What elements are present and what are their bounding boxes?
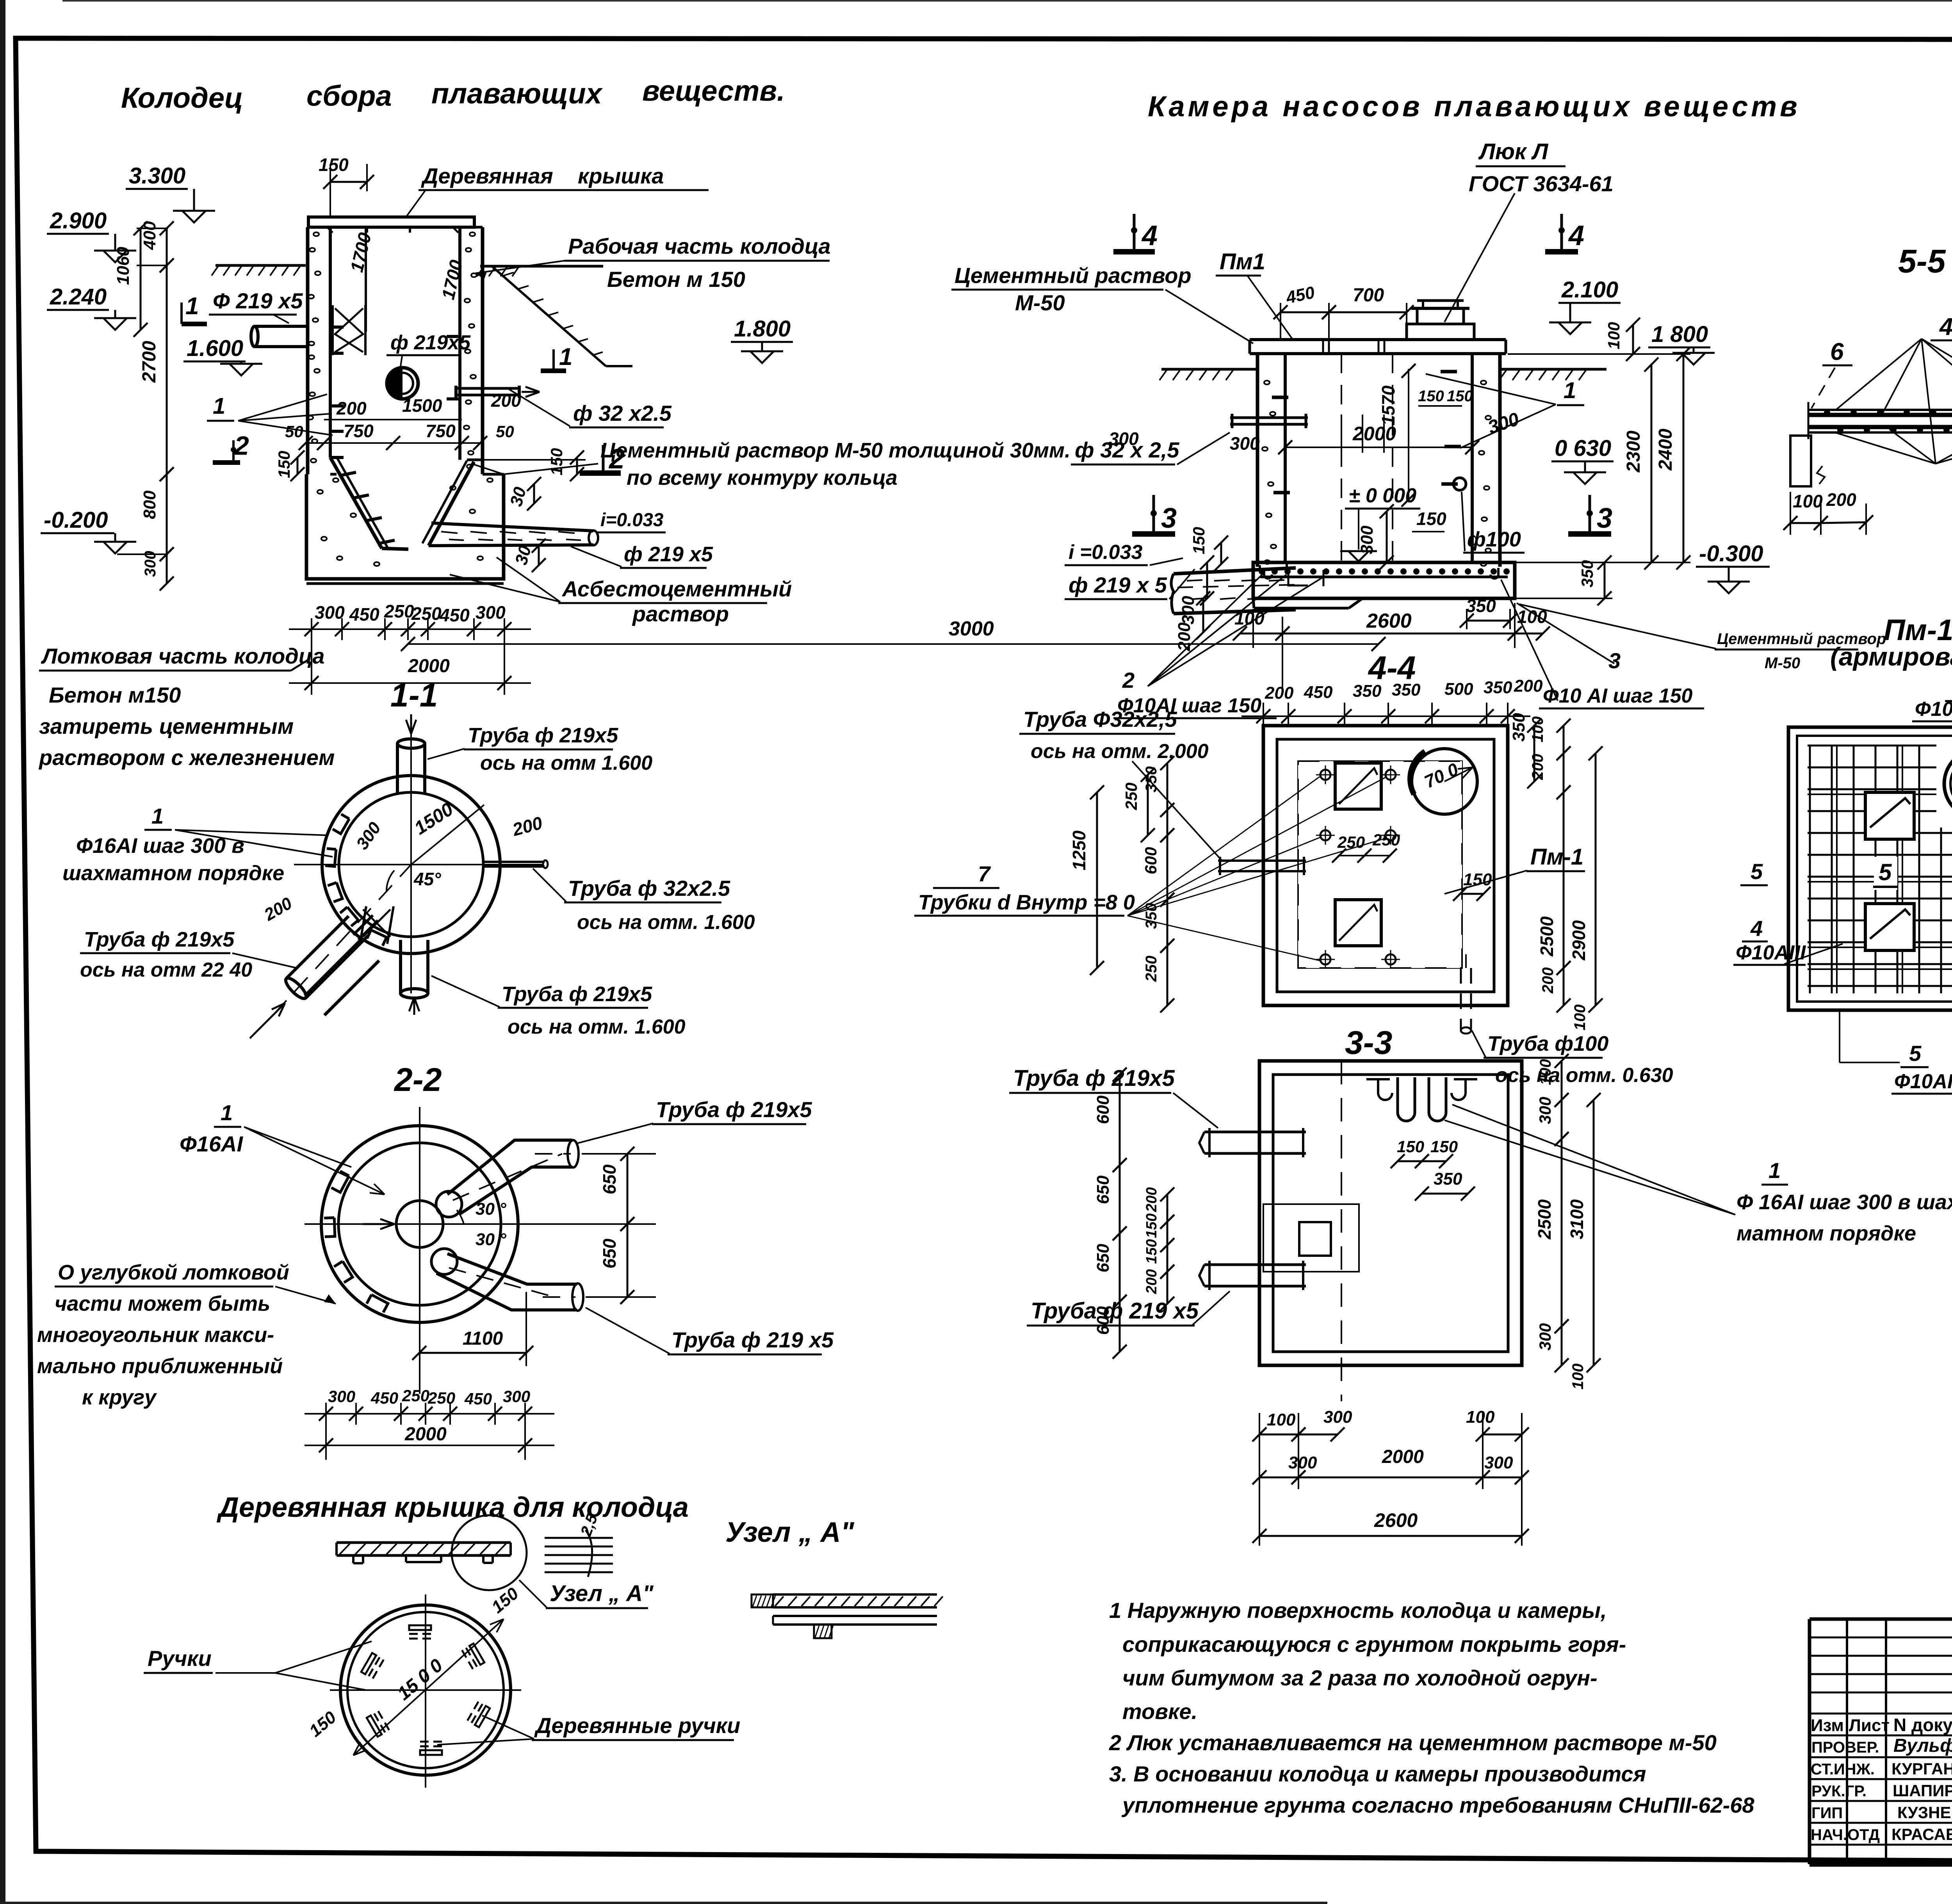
svg-text:Колодец: Колодец: [121, 82, 243, 114]
svg-text:Труба ф 219х5: Труба ф 219х5: [502, 982, 652, 1006]
svg-text:1: 1: [1564, 378, 1576, 403]
svg-text:2000: 2000: [404, 1424, 447, 1445]
svg-text:затиреть цементным: затиреть цементным: [39, 714, 294, 738]
svg-text:5-5: 5-5: [1898, 243, 1946, 279]
svg-text:200: 200: [1143, 1187, 1160, 1212]
svg-text:2.900: 2.900: [50, 208, 107, 233]
svg-text:150: 150: [319, 155, 349, 175]
svg-text:350: 350: [1392, 680, 1421, 699]
svg-text:5: 5: [1879, 859, 1892, 885]
svg-text:НАЧ.ОТД: НАЧ.ОТД: [1811, 1826, 1880, 1843]
svg-text:200: 200: [336, 398, 367, 418]
svg-text:М-50: М-50: [1015, 290, 1065, 315]
svg-text:Деревянная: Деревянная: [421, 164, 553, 188]
svg-text:уплотнение грунта согласно: уплотнение грунта согласно требованиям С…: [1121, 1793, 1754, 1817]
svg-text:Пм1: Пм1: [1220, 249, 1265, 274]
svg-text:300: 300: [1536, 1323, 1554, 1351]
svg-text:2300: 2300: [1623, 431, 1644, 473]
svg-text:ШАПИРО: ШАПИРО: [1893, 1781, 1952, 1800]
svg-text:Рабочая часть колодца: Рабочая часть колодца: [568, 234, 831, 258]
svg-text:150: 150: [1430, 1137, 1458, 1156]
svg-text:750: 750: [344, 421, 374, 441]
svg-text:О углубкой лотковой: О углубкой лотковой: [58, 1261, 289, 1284]
svg-text:7: 7: [978, 861, 991, 886]
svg-text:350: 350: [1509, 713, 1528, 742]
svg-text:450: 450: [370, 1389, 398, 1407]
svg-text:450: 450: [349, 604, 379, 625]
svg-text:3: 3: [1161, 503, 1177, 534]
svg-text:100: 100: [1571, 1004, 1589, 1030]
svg-text:Трубки d Внутр =8 0: Трубки d Внутр =8 0: [918, 891, 1135, 914]
svg-text:150: 150: [1397, 1137, 1424, 1156]
svg-text:Деревянная крышка для коло: Деревянная крышка для колодца: [216, 1492, 689, 1523]
svg-text:2600: 2600: [1366, 610, 1412, 632]
svg-text:750: 750: [426, 421, 456, 441]
svg-text:2000: 2000: [1352, 423, 1396, 445]
svg-text:1: 1: [213, 393, 225, 419]
svg-text:3-3: 3-3: [1345, 1024, 1392, 1061]
svg-text:600: 600: [1094, 1095, 1113, 1124]
svg-text:150: 150: [1416, 509, 1446, 529]
svg-text:300: 300: [315, 602, 345, 623]
svg-text:350: 350: [1143, 766, 1160, 792]
svg-text:Ручки: Ручки: [148, 1646, 212, 1671]
svg-text:1: 1: [1769, 1158, 1781, 1183]
svg-text:0 630: 0 630: [1555, 436, 1611, 461]
svg-text:Труба ф 219х5: Труба ф 219х5: [656, 1097, 812, 1122]
svg-text:200: 200: [1265, 683, 1294, 703]
svg-text:2900: 2900: [1569, 920, 1589, 961]
svg-text:ось на отм. 1.600: ось на отм. 1.600: [577, 911, 755, 934]
svg-text:150: 150: [1190, 527, 1208, 554]
svg-text:300: 300: [1484, 1453, 1513, 1472]
svg-text:ГОСТ 3634-61: ГОСТ 3634-61: [1469, 171, 1614, 196]
svg-text:1.600: 1.600: [187, 336, 243, 361]
svg-text:150: 150: [1143, 1239, 1160, 1264]
svg-text:350: 350: [1434, 1169, 1462, 1189]
svg-text:300: 300: [1323, 1408, 1352, 1427]
svg-text:раствором с железнением: раствором с железнением: [38, 745, 335, 770]
svg-text:250: 250: [411, 603, 442, 624]
svg-text:М-50: М-50: [1765, 655, 1800, 672]
svg-text:250: 250: [402, 1386, 429, 1405]
svg-text:150: 150: [1418, 388, 1444, 405]
svg-text:Бетон м150: Бетон м150: [49, 683, 181, 707]
svg-text:300: 300: [476, 602, 506, 623]
svg-text:250: 250: [1143, 956, 1160, 982]
svg-text:200: 200: [1143, 1269, 1160, 1294]
svg-text:Труба Ф32х2,5: Труба Ф32х2,5: [1023, 707, 1177, 731]
svg-text:ф 219 х5: ф 219 х5: [624, 543, 713, 566]
svg-text:веществ.: веществ.: [642, 75, 785, 107]
svg-text:2-2: 2-2: [394, 1061, 442, 1098]
svg-text:1: 1: [151, 804, 164, 828]
svg-text:650: 650: [599, 1164, 620, 1194]
svg-text:по всему контуру кольца: по всему контуру кольца: [627, 466, 898, 489]
svg-text:ф 32 х2.5: ф 32 х2.5: [573, 401, 672, 425]
svg-text:300: 300: [1179, 596, 1198, 625]
svg-text:6: 6: [1830, 338, 1844, 365]
svg-text:Камера насосов плавающих ве: Камера насосов плавающих веществ: [1148, 90, 1801, 123]
svg-text:3.300: 3.300: [129, 163, 185, 189]
svg-text:чим битумом за 2 раза по: чим битумом за 2 раза по холодной огрун-: [1122, 1666, 1598, 1690]
svg-text:ф 219 х 5: ф 219 х 5: [1069, 573, 1167, 597]
svg-text:100: 100: [1537, 1059, 1554, 1085]
svg-text:2.100: 2.100: [1561, 277, 1618, 303]
svg-text:Цементный раствор: Цементный раствор: [1717, 630, 1886, 648]
svg-text:100: 100: [1267, 1410, 1296, 1429]
svg-text:Бетон м 150: Бетон м 150: [607, 267, 745, 292]
svg-text:2700: 2700: [139, 341, 160, 383]
svg-text:50: 50: [285, 422, 303, 441]
svg-text:50: 50: [496, 422, 514, 441]
svg-text:100: 100: [1605, 322, 1623, 349]
svg-text:3100: 3100: [1567, 1199, 1587, 1239]
svg-text:ось на отм. 1.600: ось на отм. 1.600: [508, 1016, 686, 1038]
svg-text:товке.: товке.: [1122, 1699, 1197, 1724]
svg-text:1.800: 1.800: [734, 316, 791, 342]
svg-text:Труба ф 32х2.5: Труба ф 32х2.5: [568, 876, 730, 900]
svg-text:450: 450: [439, 605, 470, 625]
svg-text:1570: 1570: [1378, 385, 1398, 425]
svg-text:СТ.ИНЖ.: СТ.ИНЖ.: [1811, 1761, 1875, 1778]
svg-text:1: 1: [221, 1100, 233, 1125]
svg-text:1 Наружную поверхность колод: 1 Наружную поверхность колодца и камеры,: [1109, 1598, 1607, 1623]
svg-text:1: 1: [185, 293, 199, 320]
svg-text:300: 300: [1230, 433, 1260, 454]
svg-text:250: 250: [427, 1389, 455, 1407]
svg-text:30 °: 30 °: [476, 1230, 506, 1249]
svg-text:крышка: крышка: [578, 164, 664, 188]
svg-text:100: 100: [1234, 608, 1265, 628]
svg-text:4: 4: [1141, 220, 1158, 251]
svg-text:Ф 219 х5: Ф 219 х5: [213, 288, 303, 313]
svg-text:4: 4: [1568, 220, 1584, 251]
svg-text:2000: 2000: [408, 656, 450, 676]
svg-text:1060: 1060: [114, 247, 133, 285]
svg-text:150: 150: [547, 448, 566, 475]
svg-text:Люк Л: Люк Л: [1478, 139, 1549, 164]
svg-text:ф100: ф100: [1467, 528, 1521, 551]
svg-text:650: 650: [1094, 1244, 1113, 1272]
svg-text:2: 2: [1122, 668, 1135, 692]
svg-text:шахматном порядке: шахматном порядке: [62, 861, 284, 885]
svg-text:450: 450: [1304, 683, 1333, 702]
svg-text:2600: 2600: [1374, 1509, 1418, 1531]
svg-text:250: 250: [1122, 783, 1140, 810]
svg-text:150: 150: [1143, 1214, 1160, 1238]
svg-text:ПРОВЕР.: ПРОВЕР.: [1811, 1739, 1879, 1756]
svg-text:Труба ф 219 х5: Труба ф 219 х5: [1031, 1298, 1199, 1324]
svg-text:4: 4: [1750, 916, 1763, 941]
svg-text:30 °: 30 °: [476, 1199, 506, 1219]
svg-text:i=0.033: i=0.033: [600, 510, 664, 530]
svg-text:2000: 2000: [1382, 1447, 1424, 1467]
svg-text:к кругу: к кругу: [82, 1386, 157, 1409]
svg-text:150: 150: [1463, 870, 1492, 889]
svg-text:многоугольник макси-: многоугольник макси-: [37, 1323, 274, 1347]
svg-text:3. В основании колодца и: 3. В основании колодца и камеры производ…: [1109, 1762, 1646, 1786]
svg-text:КУРГАНОВА: КУРГАНОВА: [1891, 1760, 1952, 1778]
svg-text:200: 200: [1539, 967, 1557, 994]
svg-text:ф 219х5: ф 219х5: [390, 331, 471, 354]
svg-text:3000: 3000: [949, 617, 994, 640]
svg-text:Лист: Лист: [1849, 1716, 1890, 1735]
svg-text:Вульф: Вульф: [1893, 1735, 1952, 1756]
svg-text:части может быть: части может быть: [55, 1292, 270, 1315]
svg-text:350: 350: [1466, 596, 1496, 616]
svg-text:Асбестоцементный: Асбестоцементный: [561, 577, 792, 601]
svg-text:150: 150: [1447, 388, 1473, 405]
svg-text:1: 1: [559, 343, 572, 370]
svg-text:100: 100: [1793, 491, 1823, 511]
svg-text:800: 800: [140, 490, 159, 519]
svg-text:-0.200: -0.200: [44, 507, 108, 533]
svg-text:650: 650: [599, 1238, 620, 1269]
svg-text:Узел „ А": Узел „ А": [550, 1581, 654, 1606]
svg-text:-0.300: -0.300: [1699, 541, 1763, 566]
svg-text:350: 350: [1578, 560, 1596, 587]
svg-text:Труба ф 219х5: Труба ф 219х5: [468, 724, 618, 747]
svg-text:1500: 1500: [402, 395, 442, 416]
svg-text:Ф10 АI шаг 150: Ф10 АI шаг 150: [1543, 685, 1693, 707]
svg-text:300: 300: [1357, 525, 1377, 554]
svg-text:раствор: раствор: [632, 601, 729, 626]
svg-text:450: 450: [464, 1390, 492, 1408]
svg-text:200: 200: [1826, 489, 1856, 510]
svg-text:Ф10АIII: Ф10АIII: [1915, 698, 1952, 721]
svg-text:600: 600: [1142, 847, 1160, 874]
svg-text:200: 200: [1529, 754, 1546, 780]
svg-text:300: 300: [1536, 1097, 1554, 1124]
svg-text:Деревянные ручки: Деревянные ручки: [534, 1713, 740, 1738]
svg-text:1100: 1100: [463, 1328, 503, 1349]
svg-text:Узел „ А": Узел „ А": [725, 1517, 855, 1548]
svg-text:Цементный раствор: Цементный раствор: [955, 263, 1192, 288]
svg-text:700: 700: [1353, 285, 1384, 306]
svg-text:соприкасающуюся с грунтом: соприкасающуюся с грунтом покрыть горя-: [1122, 1632, 1626, 1657]
svg-text:КРАСАВИН: КРАСАВИН: [1891, 1825, 1952, 1843]
svg-text:РУК.ГР.: РУК.ГР.: [1811, 1783, 1867, 1800]
svg-text:плавающих: плавающих: [431, 77, 603, 110]
svg-text:1250: 1250: [1069, 830, 1089, 870]
svg-text:250: 250: [1372, 831, 1400, 849]
svg-text:45°: 45°: [413, 869, 441, 889]
svg-text:300: 300: [328, 1387, 355, 1406]
svg-text:5: 5: [1909, 1041, 1922, 1066]
svg-text:ось на отм 1.600: ось на отм 1.600: [480, 752, 652, 774]
svg-text:650: 650: [1094, 1175, 1113, 1204]
svg-text:300: 300: [1109, 429, 1139, 449]
svg-text:150: 150: [275, 451, 293, 478]
svg-text:Ф16АI: Ф16АI: [180, 1132, 243, 1156]
svg-text:ось на отм 22 40: ось на отм 22 40: [80, 959, 252, 981]
svg-text:350: 350: [1353, 682, 1382, 701]
svg-text:100: 100: [1466, 1408, 1495, 1427]
svg-text:2: 2: [233, 431, 249, 461]
svg-text:Изм: Изм: [1811, 1716, 1844, 1735]
svg-text:Труба ф 219 х5: Труба ф 219 х5: [671, 1327, 834, 1352]
svg-text:сбора: сбора: [306, 80, 392, 112]
svg-text:2500: 2500: [1534, 1199, 1555, 1240]
svg-text:600: 600: [1094, 1306, 1113, 1335]
svg-text:350: 350: [1143, 903, 1160, 929]
svg-text:матном порядке: матном порядке: [1736, 1222, 1916, 1245]
svg-text:Труба ф100: Труба ф100: [1487, 1032, 1608, 1055]
svg-text:2500: 2500: [1537, 916, 1557, 957]
svg-text:300: 300: [1288, 1453, 1317, 1472]
svg-text:Лотковая часть колодца: Лотковая часть колодца: [41, 644, 324, 668]
svg-text:КУЗНЕЦОВ: КУЗНЕЦОВ: [1897, 1803, 1952, 1822]
svg-text:200: 200: [1514, 676, 1543, 696]
svg-text:200: 200: [1175, 622, 1194, 651]
svg-text:1-1: 1-1: [390, 677, 438, 714]
svg-text:2400: 2400: [1655, 429, 1676, 471]
svg-text:100: 100: [1529, 716, 1546, 742]
svg-text:Труба ф 219х5: Труба ф 219х5: [1013, 1066, 1175, 1091]
svg-text:Труба ф 219х5: Труба ф 219х5: [84, 928, 235, 951]
svg-text:ГИП: ГИП: [1811, 1804, 1843, 1822]
svg-text:5: 5: [1751, 859, 1763, 884]
svg-text:Цементный раствор М-50 тол: Цементный раствор М-50 толщиной 30мм.: [600, 439, 1070, 462]
svg-text:3: 3: [1597, 503, 1612, 534]
svg-text:300: 300: [503, 1387, 530, 1406]
svg-text:1 800: 1 800: [1651, 322, 1708, 347]
svg-text:Пм-1: Пм-1: [1530, 844, 1583, 870]
svg-text:2 Люк устанавливается на: 2 Люк устанавливается на цементном раств…: [1109, 1730, 1717, 1755]
svg-text:500: 500: [1444, 680, 1473, 699]
svg-text:i =0.033: i =0.033: [1069, 541, 1142, 564]
svg-text:± 0 000: ± 0 000: [1349, 484, 1416, 507]
svg-text:Ф 16АI шаг 300 в шах-: Ф 16АI шаг 300 в шах-: [1736, 1190, 1952, 1214]
svg-text:4: 4: [1939, 313, 1952, 340]
svg-text:мально приближенный: мально приближенный: [37, 1354, 283, 1378]
svg-text:ось на отм. 2.000: ось на отм. 2.000: [1031, 740, 1209, 763]
svg-text:N докум.: N докум.: [1893, 1715, 1952, 1735]
svg-text:Ф10АIII: Ф10АIII: [1894, 1070, 1952, 1093]
svg-text:2.240: 2.240: [50, 284, 107, 310]
svg-text:250: 250: [384, 601, 414, 621]
svg-text:350: 350: [1484, 678, 1512, 697]
svg-text:100: 100: [1569, 1363, 1587, 1390]
